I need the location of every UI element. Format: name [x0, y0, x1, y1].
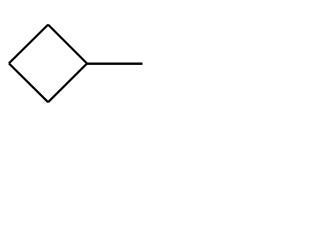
bond C1-CH3 (methyl bond) [87, 63, 143, 65]
bond C3-C4 (bottom-right ring edge) [48, 64, 87, 103]
bond C1-C2 (top-left ring edge) [9, 25, 48, 64]
bond C4-C1 (top-right ring edge) [48, 25, 87, 64]
bond C2-C3 (bottom-left ring edge) [9, 63, 48, 102]
